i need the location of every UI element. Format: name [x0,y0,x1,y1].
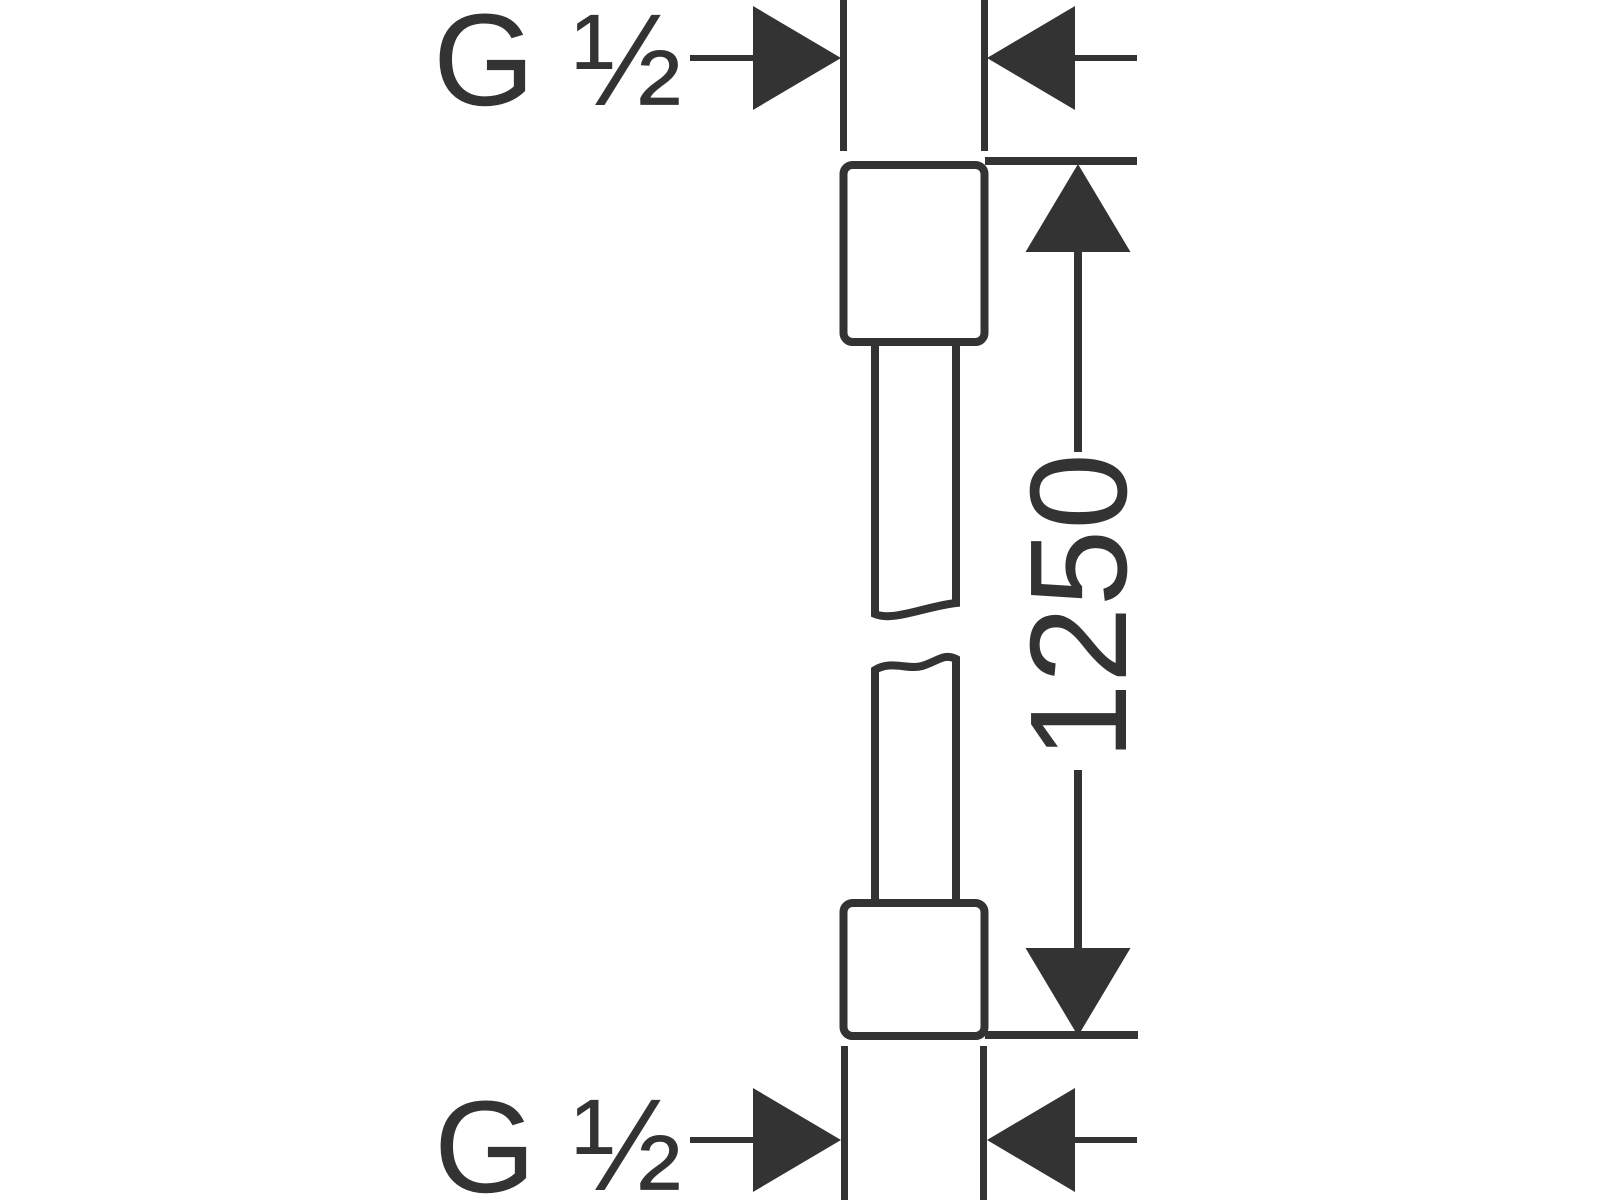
svg-text:1250: 1250 [1002,453,1156,760]
dimension leader line left (top) [690,55,758,61]
dimension line 1250 lower segment [1074,770,1082,950]
hose upper section with break [875,344,956,616]
label G 1/2 (bottom) [434,1071,682,1200]
bottom connector tube left wire [841,1046,848,1200]
svg-text:G: G [434,1073,536,1200]
dimension arrow right (bottom, pointing left) [987,1088,1075,1192]
dimension arrow left (bottom, pointing right) [753,1088,841,1192]
svg-text:½: ½ [573,1071,682,1200]
dimension arrow down (1250, pointing down) [1026,948,1131,1036]
svg-text:G: G [433,0,535,133]
top connector tube left wire [840,0,847,151]
dimension leader line right (bottom) [1072,1137,1137,1143]
label G 1/2 (top) [433,0,682,133]
dimension line 1250 upper segment [1074,248,1082,452]
dimension leader line left (bottom) [690,1137,758,1143]
dimension arrow up (1250, pointing up) [1026,164,1131,252]
dimension leader line right (top) [1072,55,1137,61]
top hose nut [844,165,985,342]
extension line (top, at 1250 start) [985,157,1137,165]
bottom connector tube right wire [980,1046,987,1200]
svg-text:½: ½ [573,0,682,133]
dimension arrow right (top, pointing left) [987,6,1075,110]
bottom hose nut [844,903,985,1036]
extension line (bottom, at 1250 end) [985,1031,1138,1039]
hose lower section with break [875,657,956,899]
dimension arrow left (top, pointing right) [753,6,841,110]
top connector tube right wire [981,0,988,151]
